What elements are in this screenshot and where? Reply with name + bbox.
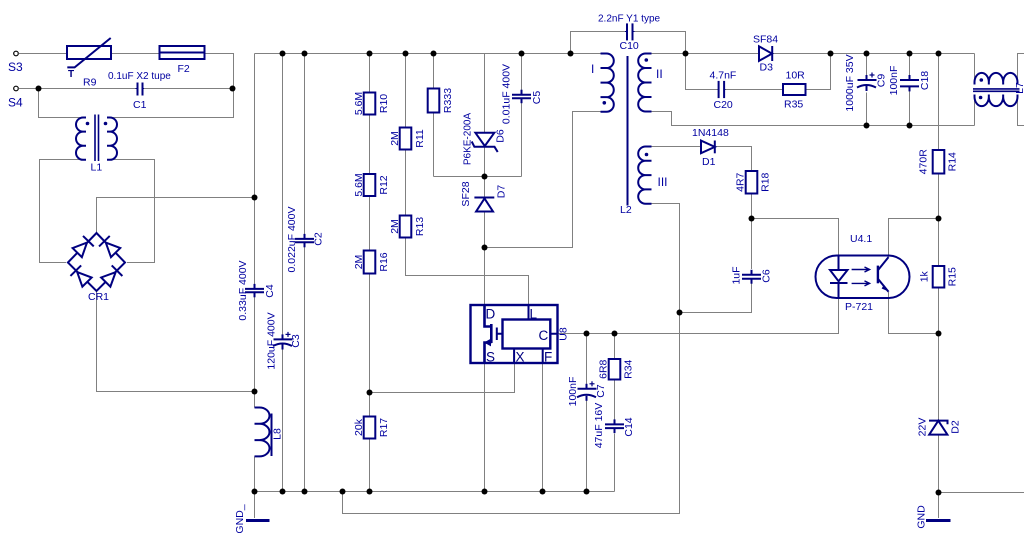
wire R10-R12-R16-R17 chain	[369, 54, 371, 492]
resistor R12	[364, 174, 376, 196]
svg-text:L2: L2	[620, 204, 632, 216]
wire F pin to ground bus	[542, 363, 544, 492]
svg-text:U4.1: U4.1	[850, 233, 872, 245]
svg-text:R14: R14	[947, 152, 959, 171]
ground GND_ primary	[246, 519, 270, 522]
svg-text:S: S	[486, 350, 495, 365]
wire L7 right stubs	[1018, 54, 1024, 126]
wire D3 to output rail	[773, 53, 975, 55]
resistor R9 thermistor	[67, 46, 111, 59]
svg-text:II: II	[656, 67, 663, 81]
wire D1 to R18	[716, 147, 752, 172]
svg-text:GND: GND	[916, 505, 928, 529]
wire S4 node down to L1 left	[39, 89, 87, 118]
svg-text:SF84: SF84	[753, 34, 778, 46]
wire L1 right bottom to bridge right	[107, 160, 155, 263]
svg-text:C9: C9	[876, 74, 888, 88]
svg-text:R13: R13	[414, 217, 426, 236]
diode D1	[701, 141, 715, 154]
junction dots top bus	[280, 51, 286, 57]
wire winding III bottom	[652, 204, 680, 313]
transformer L2 winding II	[638, 54, 651, 112]
svg-text:L7: L7	[1014, 82, 1024, 94]
wire R11-R13 chain to L pin	[406, 54, 529, 306]
transformer L2 winding III	[638, 147, 651, 204]
wire X pin to divider	[370, 363, 515, 393]
ic U8 mosfet	[485, 305, 492, 363]
svg-text:SF28: SF28	[460, 181, 472, 206]
svg-text:R16: R16	[378, 252, 390, 271]
svg-text:R11: R11	[414, 129, 426, 148]
capacitor C9	[858, 79, 877, 81]
wire D7 vertical	[484, 177, 486, 248]
wire F2 node down to L1 right	[107, 89, 234, 118]
junction dots clamp line	[482, 174, 488, 180]
svg-text:D7: D7	[496, 185, 508, 199]
fuse F2	[160, 46, 205, 59]
wire C10 right riser	[635, 32, 686, 54]
svg-text:R35: R35	[784, 99, 803, 111]
svg-text:C14: C14	[623, 417, 635, 436]
wire winding III return to primary ground	[343, 313, 680, 514]
wire bridge minus to L8 line	[97, 291, 255, 392]
wire C5 vertical	[521, 54, 523, 177]
svg-text:F2: F2	[178, 63, 190, 75]
wire C20 to R35	[726, 89, 784, 91]
wire clamp bottom bus	[434, 176, 522, 178]
svg-text:47uF 16V: 47uF 16V	[593, 403, 605, 449]
inductor L8	[255, 408, 270, 457]
svg-text:2M: 2M	[353, 255, 365, 270]
capacitor C5	[512, 94, 531, 96]
inductor L1	[76, 118, 86, 160]
svg-text:4.7nF: 4.7nF	[710, 70, 737, 82]
svg-text:F: F	[544, 350, 552, 365]
svg-text:470R: 470R	[918, 149, 930, 175]
svg-text:P-721: P-721	[845, 301, 873, 313]
wire winding II bottom return	[652, 112, 975, 126]
resistor R333	[428, 89, 440, 113]
svg-text:C10: C10	[620, 40, 639, 52]
svg-text:5.6M: 5.6M	[353, 173, 365, 196]
wire S pin to ground bus	[484, 363, 486, 492]
transformer L2 winding I	[601, 54, 614, 112]
ground GND secondary	[926, 519, 951, 522]
svg-text:GND_: GND_	[234, 504, 246, 533]
wire C pin to opto cathode	[558, 298, 839, 334]
resistor R16	[364, 251, 376, 274]
resistor R18	[746, 171, 758, 194]
wire D2 vertical	[938, 334, 940, 519]
wire L7 left verticals	[974, 54, 976, 126]
diode D6 TVS	[475, 133, 494, 146]
svg-text:L: L	[530, 307, 538, 322]
wire R333 vertical	[433, 54, 435, 177]
wire R15 vertical	[938, 219, 940, 334]
wire opto emitter to R15 bottom node	[889, 292, 939, 334]
wire opto anode	[752, 219, 839, 256]
svg-text:1uF: 1uF	[731, 266, 743, 284]
svg-text:2.2nF Y1 type: 2.2nF Y1 type	[598, 14, 661, 25]
svg-text:100nF: 100nF	[567, 377, 579, 407]
wire snubber branch	[686, 54, 718, 90]
svg-text:R17: R17	[378, 418, 390, 437]
transformer L2 core	[627, 56, 629, 206]
wire C6 top	[751, 219, 753, 270]
svg-text:R10: R10	[378, 94, 390, 113]
resistor R35	[783, 84, 806, 95]
svg-text:120uF 400V: 120uF 400V	[265, 312, 277, 369]
wire L1 left bottom to bridge left	[40, 160, 87, 263]
svg-text:2M: 2M	[389, 219, 401, 234]
junction dots S4 line	[36, 86, 42, 92]
svg-text:L8: L8	[272, 428, 284, 440]
svg-text:III: III	[658, 175, 668, 189]
wire bridge plus to C4 line	[97, 198, 255, 234]
junction dots C4 line	[252, 195, 258, 201]
svg-text:T: T	[68, 69, 74, 80]
capacitor C4	[245, 288, 264, 290]
capacitor C6	[742, 274, 761, 276]
svg-text:X: X	[516, 350, 525, 365]
inductor L7 winding top	[975, 73, 1018, 85]
svg-text:C2: C2	[313, 232, 325, 246]
optocoupler U4.1 led	[838, 256, 840, 271]
resistor R14	[933, 150, 945, 174]
svg-text:D2: D2	[950, 420, 962, 434]
resistor R17	[364, 417, 376, 439]
capacitor C10	[626, 23, 628, 40]
resistor R15	[933, 266, 945, 288]
svg-text:100nF: 100nF	[888, 66, 900, 96]
wire C7 vertical	[586, 334, 588, 492]
svg-text:D6: D6	[495, 129, 507, 143]
svg-text:R18: R18	[760, 172, 772, 191]
terminal S3	[14, 51, 19, 56]
svg-text:2M: 2M	[389, 131, 401, 146]
capacitor C3	[274, 338, 293, 340]
capacitor C7	[578, 388, 597, 390]
svg-text:0.022uF 400V: 0.022uF 400V	[286, 207, 298, 273]
svg-text:CR1: CR1	[88, 291, 109, 303]
junction dots R15 line	[936, 216, 942, 222]
diode D2 zener	[929, 421, 947, 435]
wire C2 vertical	[304, 54, 306, 492]
junction dot R18 node	[749, 216, 755, 222]
svg-text:D1: D1	[702, 156, 716, 168]
resistor R11	[400, 128, 412, 150]
wire C6 bottom	[680, 284, 752, 313]
junction dots secondary bottom rail	[864, 123, 870, 129]
optocoupler U4.1 body	[816, 256, 910, 299]
wire secondary rail to D3	[686, 53, 760, 55]
wire R9 to F2	[111, 53, 160, 55]
junction dot winding III return	[677, 310, 683, 316]
svg-text:22V: 22V	[917, 418, 929, 437]
svg-text:0.01uF 400V: 0.01uF 400V	[501, 64, 513, 124]
svg-text:R333: R333	[442, 88, 454, 113]
svg-text:1k: 1k	[919, 270, 931, 282]
wire D pin	[484, 248, 486, 306]
capacitor C18	[900, 79, 919, 81]
svg-text:20k: 20k	[353, 418, 365, 436]
wire S3 to R9	[19, 53, 68, 55]
svg-text:S4: S4	[8, 96, 23, 110]
wire winding II top to secondary rail	[652, 53, 686, 55]
junction dots ground bus	[280, 489, 286, 495]
capacitor C2	[295, 238, 314, 240]
wire R34-C14 vertical	[614, 334, 616, 492]
svg-text:C4: C4	[264, 284, 276, 298]
wire drain node to winding I	[485, 112, 601, 248]
wire C3 vertical	[282, 54, 284, 492]
capacitor C20	[718, 81, 720, 98]
svg-text:0.33uF 400V: 0.33uF 400V	[237, 260, 249, 320]
wire C9 vertical	[866, 54, 868, 126]
svg-text:1000uF 35V: 1000uF 35V	[844, 54, 856, 111]
svg-text:6R8: 6R8	[598, 359, 610, 378]
svg-text:C6: C6	[761, 269, 773, 283]
svg-text:C: C	[539, 328, 549, 343]
bridge rectifier CR1	[68, 233, 125, 291]
diode D3	[759, 46, 772, 61]
junction dot divider X node	[367, 390, 373, 396]
svg-text:C3: C3	[290, 334, 302, 348]
svg-text:R34: R34	[623, 359, 635, 378]
svg-text:5.6M: 5.6M	[353, 92, 365, 115]
svg-text:C18: C18	[919, 71, 931, 90]
diode D7	[474, 197, 494, 199]
optocoupler U4.1 arrows	[852, 267, 870, 272]
svg-text:L1: L1	[91, 162, 103, 174]
wire opto collector to R15 node	[889, 219, 939, 258]
wire top bus	[255, 53, 601, 55]
ic U8 outline	[471, 305, 558, 363]
wire F2 right, down to S4 line	[205, 54, 234, 89]
capacitor C1	[137, 83, 139, 96]
svg-text:I: I	[591, 62, 594, 76]
svg-text:R12: R12	[378, 175, 390, 194]
resistor R13	[400, 216, 412, 238]
wire C1 right to F2 node	[144, 88, 234, 90]
wire S4 line	[19, 88, 136, 90]
wire C4/L8 vertical	[254, 54, 256, 519]
svg-text:C7: C7	[595, 384, 607, 398]
svg-text:D3: D3	[760, 62, 774, 74]
wire winding III to D1	[652, 146, 702, 148]
wire R14 vertical	[938, 54, 940, 219]
svg-text:C20: C20	[714, 99, 733, 111]
resistor R34	[609, 359, 621, 380]
svg-text:4R7: 4R7	[735, 172, 747, 191]
svg-text:R9: R9	[83, 77, 97, 89]
wire C10 left riser	[571, 32, 626, 54]
junction dots C pin wire	[584, 331, 590, 337]
svg-text:1N4148: 1N4148	[692, 127, 729, 139]
svg-text:10R: 10R	[786, 70, 806, 82]
svg-text:R15: R15	[947, 267, 959, 286]
wire R18 to node	[751, 194, 753, 219]
wire primary ground bus	[255, 491, 615, 493]
wire D6 vertical	[484, 54, 486, 177]
wire secondary ground	[939, 492, 1024, 494]
capacitor C14	[605, 423, 624, 425]
inductor L7 core	[973, 88, 1020, 90]
svg-text:U8: U8	[558, 327, 570, 341]
svg-text:0.1uF X2 tupe: 0.1uF X2 tupe	[108, 71, 171, 82]
optocoupler U4.1 transistor	[877, 266, 879, 284]
wire C18 vertical	[909, 54, 911, 126]
svg-text:P6KE-200A: P6KE-200A	[463, 113, 474, 166]
svg-text:C5: C5	[531, 91, 543, 105]
svg-text:S3: S3	[8, 60, 23, 74]
resistor R10	[364, 93, 376, 115]
wire R35 up to rail	[806, 54, 831, 90]
terminal S4	[14, 86, 19, 91]
inductor L7 winding bottom	[975, 95, 1018, 107]
svg-text:C1: C1	[133, 99, 147, 111]
svg-text:D: D	[486, 307, 496, 322]
